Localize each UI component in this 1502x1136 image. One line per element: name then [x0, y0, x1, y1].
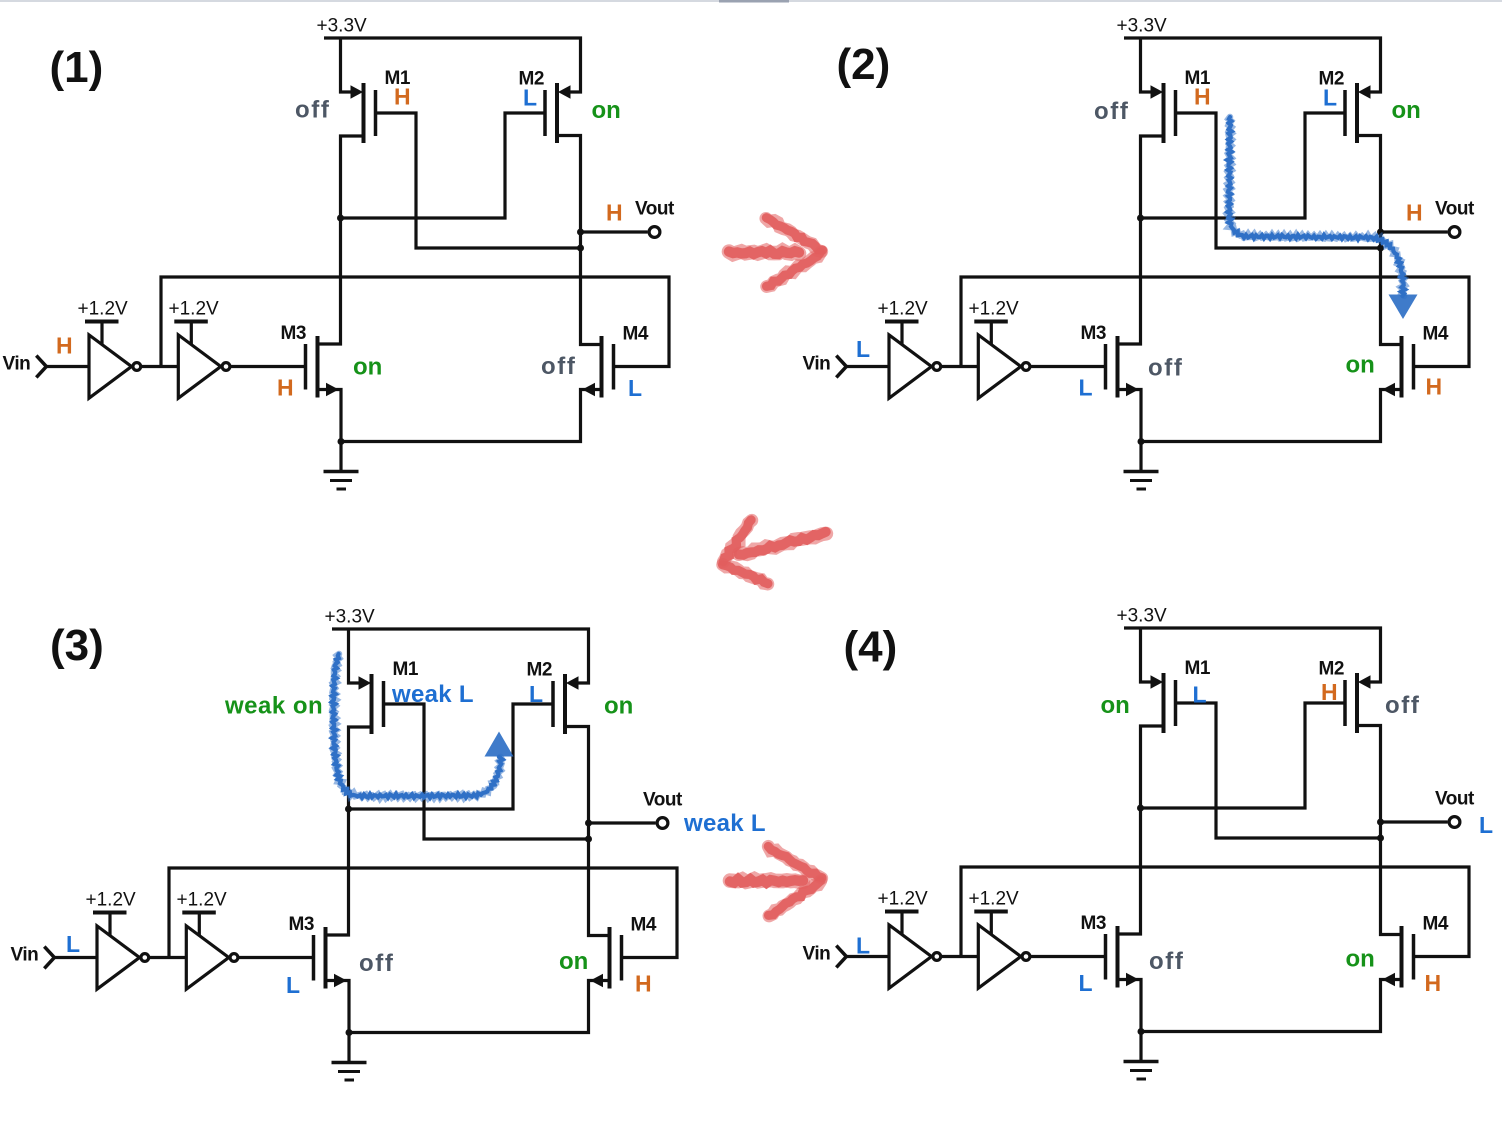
svg-text:L: L [286, 972, 300, 998]
svg-text:off: off [1149, 948, 1184, 975]
svg-text:L: L [628, 375, 642, 401]
svg-text:on: on [1346, 946, 1375, 973]
svg-text:off: off [541, 353, 576, 380]
svg-text:weak L: weak L [683, 810, 766, 837]
svg-text:(4): (4) [844, 623, 898, 672]
svg-text:L: L [1079, 970, 1093, 996]
svg-text:H: H [277, 375, 294, 401]
svg-text:on: on [604, 693, 633, 720]
svg-text:H: H [56, 333, 73, 359]
svg-text:off: off [1385, 692, 1420, 719]
svg-text:L: L [1079, 375, 1093, 401]
svg-text:H: H [635, 971, 652, 997]
svg-text:L: L [523, 85, 537, 111]
svg-text:on: on [1346, 352, 1375, 379]
svg-text:H: H [1194, 84, 1211, 110]
svg-text:weak on: weak on [224, 693, 323, 720]
svg-text:(2): (2) [837, 40, 891, 89]
svg-text:L: L [1479, 812, 1493, 838]
svg-text:off: off [1094, 98, 1129, 125]
svg-text:H: H [1425, 970, 1442, 996]
svg-text:on: on [1392, 97, 1421, 124]
svg-text:off: off [1148, 355, 1183, 382]
svg-text:(1): (1) [50, 43, 104, 92]
svg-text:L: L [529, 681, 543, 707]
svg-text:(3): (3) [50, 621, 104, 670]
svg-text:L: L [856, 336, 870, 362]
svg-text:on: on [1101, 692, 1130, 719]
svg-text:off: off [359, 950, 394, 977]
svg-text:weak L: weak L [391, 681, 474, 708]
svg-text:H: H [1406, 200, 1423, 226]
svg-text:off: off [295, 97, 330, 124]
svg-text:H: H [1321, 679, 1338, 705]
svg-text:H: H [1426, 374, 1443, 400]
svg-text:H: H [606, 200, 623, 226]
svg-text:on: on [353, 354, 382, 381]
svg-text:L: L [66, 931, 80, 957]
svg-text:L: L [1193, 682, 1207, 708]
svg-text:L: L [856, 933, 870, 959]
svg-text:on: on [592, 97, 621, 124]
svg-text:L: L [1323, 85, 1337, 111]
svg-text:on: on [559, 948, 588, 975]
svg-text:H: H [394, 84, 411, 110]
